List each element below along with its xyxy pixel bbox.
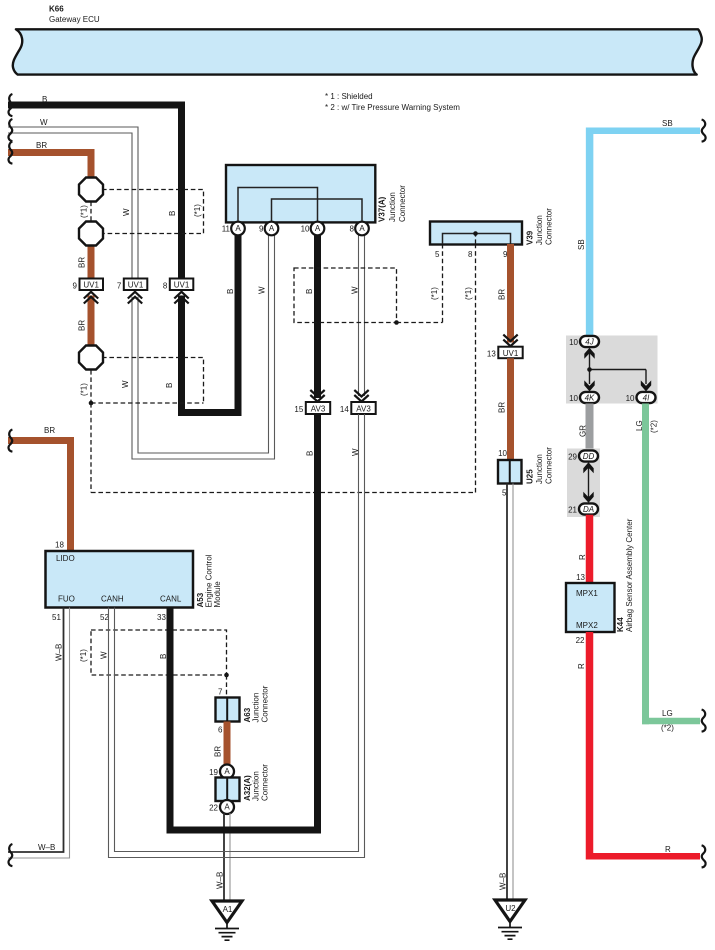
shield dashed box below ECM <box>91 630 227 675</box>
svg-text:BR: BR <box>36 141 47 150</box>
wire R DA to MPX1 <box>586 515 594 583</box>
svg-text:BR: BR <box>214 746 223 757</box>
wire BR A63 to A32(A) <box>224 722 231 769</box>
connector UV1 pin 7 box <box>124 279 148 291</box>
chevron arrows AV3 15 <box>310 390 324 402</box>
torn end mark BR lower <box>9 430 13 452</box>
svg-text:MPX1: MPX1 <box>576 589 598 598</box>
shield dashed segment inside V39 to busbar dot <box>475 234 477 245</box>
arrow up into 4J <box>584 348 594 359</box>
svg-text:13: 13 <box>487 350 496 359</box>
svg-text:A: A <box>224 767 230 776</box>
link line DD to DA <box>588 465 590 500</box>
wire W from left edge to UV1 7 (double line) <box>8 127 138 279</box>
svg-text:BR: BR <box>78 320 87 331</box>
svg-text:6: 6 <box>218 726 223 735</box>
svg-text:A: A <box>359 224 365 233</box>
shield dashed box around W and B wires (upper) <box>102 190 204 234</box>
svg-text:LIDO: LIDO <box>56 554 75 563</box>
svg-text:W–B: W–B <box>55 644 64 661</box>
svg-text:Gateway ECU: Gateway ECU <box>49 15 100 24</box>
svg-text:Junction: Junction <box>388 192 397 222</box>
svg-text:K66: K66 <box>49 5 64 14</box>
svg-text:BR: BR <box>78 257 87 268</box>
svg-text:(*1): (*1) <box>193 204 202 217</box>
wire LG 4I down to right edge <box>642 404 649 725</box>
wire B from left edge to UV1 8 <box>8 105 182 279</box>
svg-text:13: 13 <box>576 573 585 582</box>
svg-text:Connector: Connector <box>261 685 270 722</box>
connector AV3 pin 14 box <box>351 402 375 414</box>
svg-text:A: A <box>315 224 321 233</box>
svg-text:10: 10 <box>301 225 310 234</box>
V39 internal junction dot <box>473 231 478 236</box>
chevron arrows UV1 13 <box>503 335 517 347</box>
wire BR UV1 13 down to U25 <box>507 358 514 460</box>
svg-text:GR: GR <box>579 425 588 437</box>
shield dashed run to V39 pin 8 <box>91 244 476 493</box>
svg-text:LG: LG <box>662 709 673 718</box>
svg-text:R: R <box>577 663 586 669</box>
svg-text:Junction: Junction <box>252 771 261 801</box>
svg-text:Airbag Sensor Assembly Center: Airbag Sensor Assembly Center <box>625 518 634 632</box>
svg-text:8: 8 <box>468 250 473 259</box>
svg-text:Junction: Junction <box>252 693 261 723</box>
svg-text:7: 7 <box>117 282 122 291</box>
svg-text:B: B <box>165 383 174 388</box>
shield dashed below octagon 3 <box>90 370 92 403</box>
svg-text:W: W <box>100 651 109 659</box>
svg-text:(*1): (*1) <box>79 649 88 662</box>
svg-text:Junction: Junction <box>535 454 544 484</box>
svg-text:K44: K44 <box>616 617 625 632</box>
svg-text:W: W <box>121 380 130 388</box>
wire BR V39 pin 9 down to UV1 13 <box>507 244 514 343</box>
link lines 4J to 4K and 4I <box>590 352 647 384</box>
shield junction dot ECM box <box>224 673 229 678</box>
torn end mark LG <box>702 710 706 732</box>
svg-text:(*2): (*2) <box>650 420 659 433</box>
svg-text:Connector: Connector <box>398 185 407 222</box>
svg-text:Connector: Connector <box>545 208 554 245</box>
wire W-B A32 to ground A1 <box>223 813 225 901</box>
svg-text:29: 29 <box>568 453 577 462</box>
svg-text:DA: DA <box>583 505 594 514</box>
arrow down into 4K <box>584 380 594 391</box>
svg-text:LG: LG <box>635 420 644 431</box>
svg-text:7: 7 <box>218 688 223 697</box>
svg-text:8: 8 <box>163 282 168 291</box>
shield octagon 3 <box>79 346 103 370</box>
connector DA oval <box>579 503 598 514</box>
svg-text:V39: V39 <box>526 230 535 245</box>
wire W V37 pin 8 down to AV3 14 <box>359 230 365 396</box>
svg-text:AV3: AV3 <box>356 404 371 413</box>
svg-text:B: B <box>42 95 47 104</box>
V37 pin 10 circle A <box>311 222 325 236</box>
svg-text:U25: U25 <box>526 469 535 484</box>
U25 divider <box>509 460 511 484</box>
connector UV1 pin 9 box <box>80 279 104 291</box>
wire SB from right edge down to 4J <box>586 127 700 134</box>
svg-text:B: B <box>305 289 314 294</box>
junction connector V37(A) box <box>226 165 375 222</box>
svg-text:51: 51 <box>52 613 61 622</box>
svg-text:21: 21 <box>568 506 577 515</box>
svg-text:B: B <box>168 211 177 216</box>
wire B V37 pin 10 down to AV3 15 <box>314 230 321 398</box>
svg-text:W–B: W–B <box>38 843 55 852</box>
svg-text:11: 11 <box>222 225 231 234</box>
svg-text:A: A <box>269 224 275 233</box>
svg-text:4I: 4I <box>643 393 650 402</box>
svg-text:SB: SB <box>577 239 586 250</box>
svg-text:10: 10 <box>569 338 578 347</box>
svg-text:* 1 : Shielded: * 1 : Shielded <box>325 92 373 101</box>
Gateway ECU banner K66 <box>13 29 702 74</box>
shield dashed link to V39 pin 5 <box>397 244 443 323</box>
wire W from UV1 7 down, right, up to V37 pin 9 <box>132 230 275 459</box>
A32 pin 22 circle A <box>220 800 234 814</box>
svg-text:W: W <box>40 118 48 127</box>
torn end mark W <box>9 119 13 141</box>
shield dashed link octagon1-octagon2 <box>90 202 92 222</box>
svg-text:AV3: AV3 <box>311 404 326 413</box>
wire W-B U25 to ground U2 <box>506 484 508 901</box>
svg-text:18: 18 <box>55 541 64 550</box>
svg-text:B: B <box>306 451 315 456</box>
chevron arrows AV3 14 <box>354 390 368 402</box>
connector 4K oval <box>580 392 599 403</box>
svg-text:W–B: W–B <box>216 872 225 889</box>
svg-text:14: 14 <box>340 405 349 414</box>
arrow up into DD <box>583 462 593 473</box>
svg-text:UV1: UV1 <box>128 281 144 290</box>
shield junction node dot <box>89 401 94 406</box>
svg-text:10: 10 <box>626 394 635 403</box>
junction connector V39 box <box>430 222 522 245</box>
svg-text:22: 22 <box>576 636 585 645</box>
svg-text:* 2 : w/ Tire Pressure Warning: * 2 : w/ Tire Pressure Warning System <box>325 103 460 112</box>
V37 pin 8 circle A <box>355 222 369 236</box>
svg-text:Connector: Connector <box>261 764 270 801</box>
wire W-B FUO to left edge <box>8 608 64 853</box>
svg-text:BR: BR <box>498 289 507 300</box>
svg-text:8: 8 <box>350 225 355 234</box>
svg-text:MPX2: MPX2 <box>576 621 598 630</box>
svg-text:W: W <box>258 286 267 294</box>
connector UV1 pin 13 box <box>498 347 522 359</box>
connector 4I oval <box>637 392 656 403</box>
svg-text:U2: U2 <box>505 904 516 913</box>
svg-text:V37(A): V37(A) <box>378 196 387 222</box>
V37 pin 11 circle A <box>231 222 245 236</box>
wire BR from left edge to shield octagon chain <box>8 153 91 189</box>
V37 pin 9 circle A <box>265 222 279 236</box>
svg-text:A: A <box>224 803 230 812</box>
chevron arrows UV1 9 <box>84 292 98 304</box>
svg-text:DD: DD <box>583 452 595 461</box>
junction connector U25 box <box>498 460 522 484</box>
chevron arrows UV1 8 <box>174 292 188 304</box>
ground U2 symbol <box>498 922 522 940</box>
svg-text:UV1: UV1 <box>83 281 99 290</box>
svg-text:A1: A1 <box>223 905 233 914</box>
connector 4J oval <box>580 336 599 347</box>
svg-text:(*1): (*1) <box>464 287 473 300</box>
torn end mark B <box>9 94 13 116</box>
svg-text:SB: SB <box>662 119 673 128</box>
svg-text:(*2): (*2) <box>661 724 674 733</box>
shield dashed box lower (octagon3 to junction) <box>91 358 204 404</box>
wire R MPX2 down to right edge <box>586 632 594 860</box>
svg-text:19: 19 <box>209 768 218 777</box>
wire GR 4K to DD <box>586 404 594 452</box>
svg-text:FUO: FUO <box>58 595 75 604</box>
svg-text:15: 15 <box>294 405 303 414</box>
svg-text:9: 9 <box>73 282 78 291</box>
airbag sensor assembly center K44 box <box>566 583 615 632</box>
svg-text:Module: Module <box>213 581 222 608</box>
V39 internal busbar <box>443 234 511 245</box>
connector AV3 pin 15 box <box>306 402 330 414</box>
wire BR from left edge to ECM pin 18 <box>8 441 71 552</box>
svg-text:(*1): (*1) <box>80 383 89 396</box>
svg-text:R: R <box>578 554 587 560</box>
svg-text:BR: BR <box>498 402 507 413</box>
svg-text:33: 33 <box>157 613 166 622</box>
wire BR UV1 9 to octagon 3 <box>88 296 95 358</box>
connector DD oval <box>579 450 598 461</box>
svg-text:10: 10 <box>498 449 507 458</box>
svg-text:9: 9 <box>259 225 264 234</box>
V37 internal busbar pins 9-8 <box>272 199 363 222</box>
gray connector block DD DA <box>567 449 600 518</box>
svg-text:4K: 4K <box>585 393 595 402</box>
svg-text:R: R <box>665 845 671 854</box>
svg-text:4J: 4J <box>585 337 594 346</box>
chevron arrows UV1 7 <box>128 292 142 304</box>
shield octagon 2 <box>79 222 103 246</box>
gray connector block 4J 4K 4I <box>566 336 658 404</box>
svg-text:Connector: Connector <box>545 447 554 484</box>
svg-text:(*1): (*1) <box>430 287 439 300</box>
torn end mark W-B <box>9 844 13 866</box>
svg-text:Junction: Junction <box>535 215 544 245</box>
torn end mark BR <box>9 142 13 164</box>
svg-text:A: A <box>235 224 241 233</box>
wire W CANH big loop to AV3 14 <box>109 414 365 858</box>
ground U2 triangle <box>495 900 525 922</box>
junction connector A63 box <box>216 698 240 722</box>
wire BR octagon 2 to UV1 9 <box>88 234 95 279</box>
shield dashed box around pin10/pin8 wires <box>294 268 397 323</box>
svg-text:W: W <box>122 208 131 216</box>
engine control module A53 box <box>46 551 194 608</box>
arrow down into 4I <box>641 380 651 391</box>
svg-text:UV1: UV1 <box>503 349 519 358</box>
svg-text:W–B: W–B <box>499 873 508 890</box>
svg-text:CANH: CANH <box>101 595 124 604</box>
torn end mark SB <box>702 120 706 142</box>
junction dot <box>587 367 592 372</box>
svg-text:BR: BR <box>44 426 55 435</box>
svg-text:(*1): (*1) <box>80 205 89 218</box>
ground A1 symbol <box>215 923 239 941</box>
svg-text:W: W <box>351 286 360 294</box>
ground A1 triangle <box>212 901 242 923</box>
svg-text:CANL: CANL <box>160 595 182 604</box>
A32 pin 19 circle A <box>220 765 234 779</box>
svg-text:5: 5 <box>435 250 440 259</box>
junction connector A32(A) box <box>216 778 240 802</box>
wire B from UV1 8 down and up to V37 pin 11 <box>182 230 239 413</box>
torn end mark R <box>702 845 706 867</box>
connector UV1 pin 8 box <box>170 279 194 291</box>
shield octagon 1 <box>79 178 103 202</box>
wire B CANL big loop to AV3 15 <box>170 414 318 830</box>
V37 internal busbar pins 11-10 <box>238 188 318 223</box>
shield dashed to A63 pin 7 <box>226 675 228 698</box>
arrow down into DA <box>583 492 593 503</box>
shield junction dot at dashed box corner <box>394 320 399 325</box>
svg-text:B: B <box>226 289 235 294</box>
svg-text:UV1: UV1 <box>174 281 190 290</box>
svg-text:22: 22 <box>209 804 218 813</box>
svg-text:10: 10 <box>569 394 578 403</box>
